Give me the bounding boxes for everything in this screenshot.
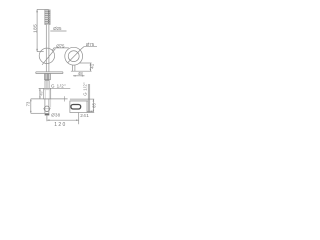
dimension 48 (body height): [39, 88, 44, 98]
label Ø75 left: [52, 43, 69, 50]
hook slash: [68, 50, 81, 63]
slot in body: [71, 105, 81, 110]
svg-text:Ø38: Ø38: [51, 112, 60, 117]
elbow top view flange: [70, 99, 88, 101]
hose cap: [45, 113, 50, 115]
svg-text:185: 185: [33, 24, 38, 33]
shelf (bracket bar): [36, 72, 63, 74]
svg-text:48: 48: [78, 71, 83, 76]
shower handle: [46, 25, 49, 72]
hook rosette inner circle: [68, 51, 79, 62]
hook rosette outer circle: [65, 47, 83, 65]
dimension 241: [79, 111, 94, 125]
long extension line: [31, 96, 68, 101]
svg-text:Ø75: Ø75: [56, 43, 65, 48]
dimension 65 (depth): [87, 99, 94, 112]
dimension 48 lower: [73, 75, 85, 77]
shower head (hatched): [45, 10, 50, 25]
label Ø25: [50, 26, 66, 31]
label G 1/2": [49, 84, 70, 89]
svg-text:73: 73: [25, 101, 30, 106]
svg-text:G 1/2": G 1/2": [51, 84, 66, 89]
svg-text:48: 48: [38, 91, 43, 96]
svg-text:241: 241: [80, 113, 89, 118]
dimension 120: [47, 116, 79, 122]
dimension 41: [71, 63, 92, 71]
dimension 73: [30, 99, 45, 113]
elbow neck: [45, 99, 51, 113]
holder slash: [42, 49, 55, 65]
escutcheon circle front: [43, 106, 51, 111]
svg-text:65: 65: [92, 103, 97, 108]
elbow body front: [44, 88, 51, 98]
svg-text:G 1/2": G 1/2": [82, 82, 87, 96]
elbow top view body: [70, 101, 87, 113]
svg-text:41: 41: [89, 63, 94, 68]
svg-text:120: 120: [54, 122, 67, 128]
hook stem: [72, 65, 75, 71]
svg-text:Ø25: Ø25: [53, 26, 62, 31]
handle nut: [45, 74, 51, 80]
label Ø75 right: [80, 42, 97, 50]
wall section lines: [88, 84, 89, 113]
dimension 185 vertical line: [36, 10, 49, 52]
svg-text:Ø75: Ø75: [86, 42, 95, 47]
holder circle (front): [39, 48, 54, 63]
supply stub G1/2: [45, 80, 49, 88]
